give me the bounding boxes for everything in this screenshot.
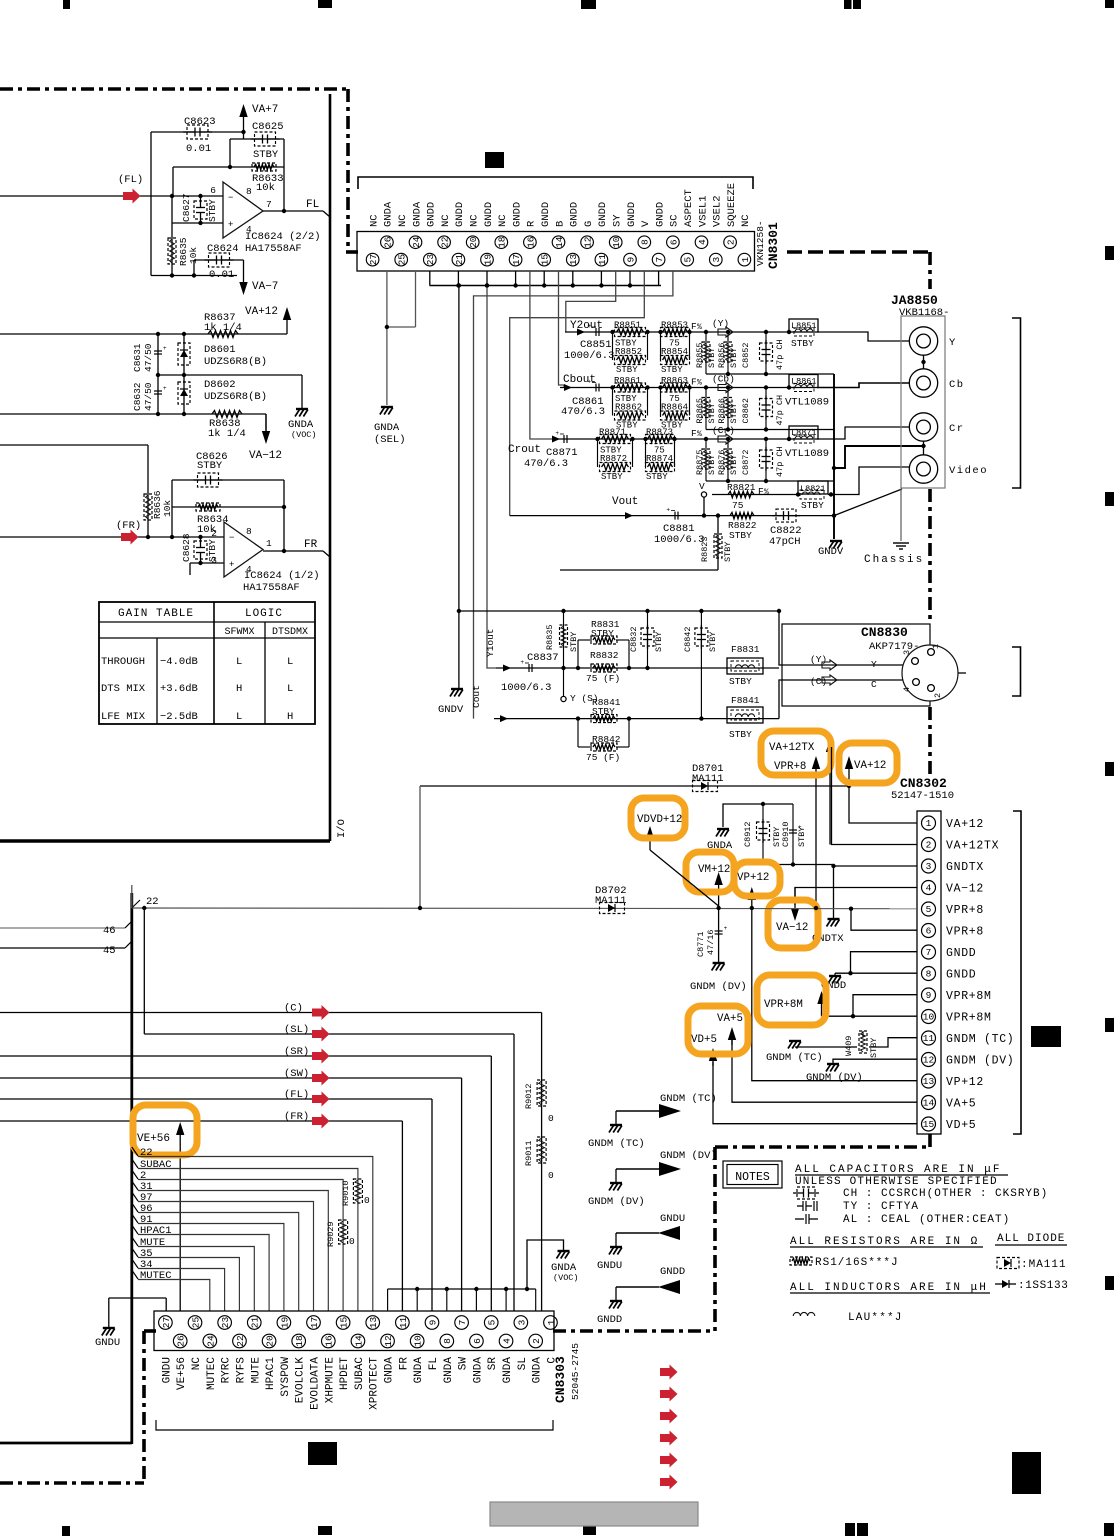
wire C8623 row xyxy=(151,131,244,133)
svg-text:GNDD: GNDD xyxy=(946,969,976,982)
highlight VA-12 xyxy=(768,900,818,948)
svg-text:GNDA: GNDA xyxy=(443,1357,455,1384)
svg-text:%: % xyxy=(697,323,702,332)
wire GNDU branch xyxy=(109,1297,166,1299)
svg-text:(VOC): (VOC) xyxy=(291,430,317,440)
wire (C) drop xyxy=(541,1013,543,1312)
ground GNDV video xyxy=(830,540,842,542)
red arrow (SL) xyxy=(312,1027,330,1042)
svg-text:R8851: R8851 xyxy=(614,321,641,331)
svg-text:C8625: C8625 xyxy=(252,121,284,133)
node bottom junction 2 xyxy=(192,273,196,277)
wire y375 to GNDA VOC xyxy=(158,374,302,376)
node y334 j1 xyxy=(156,332,160,336)
section marker black square top middle xyxy=(485,152,504,168)
notes box xyxy=(723,1161,782,1188)
ferrite F8831 xyxy=(727,658,763,674)
svg-text:STBY: STBY xyxy=(707,403,717,423)
node y334 j2 xyxy=(182,332,186,336)
inductor L8851 xyxy=(789,319,818,332)
wire Cr row to jack xyxy=(817,427,909,439)
svg-text:HPAC1: HPAC1 xyxy=(140,1225,172,1237)
svg-text:R8853: R8853 xyxy=(661,321,688,331)
svg-text:NC: NC xyxy=(397,214,409,227)
ground GNDM (TC) xyxy=(615,1111,617,1124)
svg-text:Cbout: Cbout xyxy=(563,374,596,386)
CN8303 pin 5 xyxy=(484,1316,498,1330)
svg-text:Y: Y xyxy=(871,659,877,670)
svg-text:(SR): (SR) xyxy=(284,1046,309,1058)
ground GNDA (SEL) xyxy=(381,406,393,408)
wire SL source vertical xyxy=(143,908,145,1034)
svg-text:0.01: 0.01 xyxy=(209,269,234,281)
wire to VA-12 xyxy=(265,414,267,431)
svg-text:STBY: STBY xyxy=(708,632,718,652)
svg-text:V: V xyxy=(640,220,652,227)
svg-text:47pCH: 47pCH xyxy=(769,536,801,548)
ground GNDM(TC) mid xyxy=(789,1040,801,1042)
svg-text:(Y): (Y) xyxy=(810,654,827,665)
svg-text:GNDD: GNDD xyxy=(454,202,466,227)
ground GNDM (DV) xyxy=(615,1169,617,1182)
bus tap 35 xyxy=(132,1248,138,1257)
svg-text:47p CH: 47p CH xyxy=(775,339,785,370)
svg-text:GNDM (DV): GNDM (DV) xyxy=(588,1196,645,1208)
svg-text:GNDM (DV): GNDM (DV) xyxy=(660,1150,717,1162)
svg-text:24: 24 xyxy=(205,1335,216,1347)
highlight VA+12TX VPR+8 xyxy=(761,731,831,775)
CN8302 pin 15 xyxy=(922,1117,936,1131)
capacitor C8852 xyxy=(765,332,767,374)
node 22 j752 xyxy=(750,906,754,910)
CN8302 pin 7 xyxy=(922,945,936,959)
svg-text:%: % xyxy=(697,430,702,439)
svg-text:STBY: STBY xyxy=(791,338,814,349)
bracket right of JA8850 xyxy=(1012,318,1021,488)
svg-text:CN8302: CN8302 xyxy=(900,776,947,791)
svg-text:VE+56: VE+56 xyxy=(176,1357,188,1390)
ferrite F8841 xyxy=(727,707,763,723)
svg-text:STBY: STBY xyxy=(707,348,717,368)
notes resistor symbol xyxy=(790,1257,812,1265)
crop mark bottom left xyxy=(62,1526,70,1536)
svg-text:I/O: I/O xyxy=(336,819,348,838)
svg-text:−4.0dB: −4.0dB xyxy=(160,656,198,668)
wire GNDA pin24 xyxy=(415,271,417,327)
dashed border horizontal y1331 right part xyxy=(553,1329,715,1333)
signal arrow Cout xyxy=(500,715,508,722)
capacitor C8822 xyxy=(776,509,796,522)
node GNDD bus junction pin 21 xyxy=(456,283,460,287)
svg-text:+3.6dB: +3.6dB xyxy=(160,683,198,695)
svg-text:GNDD: GNDD xyxy=(946,947,976,960)
svg-text:GNDA: GNDA xyxy=(413,1357,425,1384)
double arrow Y svideo xyxy=(822,660,837,670)
wire CN8302 pin12 xyxy=(833,1059,917,1063)
svg-text:1: 1 xyxy=(740,256,751,262)
resistor R8832 xyxy=(591,664,617,672)
op-amp IC8624 (1/2) xyxy=(224,522,263,577)
svg-text:F8841: F8841 xyxy=(731,695,760,706)
CN8301 pin 1 xyxy=(738,253,751,266)
svg-text:C8852: C8852 xyxy=(741,342,751,368)
svg-text:GNDD: GNDD xyxy=(626,202,638,227)
ground GNDM(DV) mid xyxy=(713,962,725,964)
CN8303 pin 24 xyxy=(203,1334,217,1348)
ground GNDA mid xyxy=(717,828,729,830)
wire HPAC1 to CN8303 xyxy=(138,1235,269,1312)
svg-text:Y2out: Y2out xyxy=(570,320,603,332)
RCA jack Cr xyxy=(909,413,937,441)
node y375 j2 xyxy=(182,373,186,377)
svg-text:19: 19 xyxy=(482,254,493,266)
svg-text:(SL): (SL) xyxy=(284,1024,309,1036)
CN8303 pin 20 xyxy=(262,1334,276,1348)
wire GNDD stub xyxy=(616,1286,659,1288)
svg-text:HPDET: HPDET xyxy=(339,1357,351,1390)
svg-text:14: 14 xyxy=(923,1098,935,1109)
wire vertical x284 feedback to output xyxy=(283,139,285,211)
resistor R8873 xyxy=(646,435,675,444)
ground GNDD xyxy=(615,1287,617,1300)
svg-text:C8842: C8842 xyxy=(683,626,693,652)
CN8301 pin 2 xyxy=(724,236,737,249)
svg-text:12: 12 xyxy=(923,1055,935,1066)
power arrow VA-12 xyxy=(265,414,267,436)
svg-text:R9011: R9011 xyxy=(524,1140,534,1166)
svg-text:GNDA: GNDA xyxy=(532,1357,544,1384)
svg-text:ALL INDUCTORS ARE IN μH: ALL INDUCTORS ARE IN μH xyxy=(790,1282,988,1294)
wire 46 entry xyxy=(0,927,125,929)
crop mark right edge 1 xyxy=(1105,246,1114,260)
bottom rail row 1 xyxy=(706,373,834,375)
wire Vout signal xyxy=(510,515,834,517)
svg-text:GNDV: GNDV xyxy=(818,546,844,558)
notes diode 1SS133 xyxy=(995,1283,1002,1285)
diode D8701 xyxy=(693,781,718,792)
svg-text:C8910: C8910 xyxy=(781,821,791,847)
node GNDD bus junction pin 9 xyxy=(628,283,632,287)
svg-text:NC: NC xyxy=(191,1357,203,1371)
svg-text:VTL1089: VTL1089 xyxy=(785,448,829,460)
svg-text:R8832: R8832 xyxy=(590,650,619,661)
CN8302 pin 13 xyxy=(922,1074,936,1088)
node y414 j1 xyxy=(156,412,160,416)
svg-text:1000/6.3: 1000/6.3 xyxy=(564,350,614,362)
svg-text:19: 19 xyxy=(279,1317,290,1329)
svg-text:27: 27 xyxy=(368,254,379,265)
capacitor C8842 xyxy=(700,611,702,719)
svg-text:VDVD+12: VDVD+12 xyxy=(637,814,682,826)
I/O block bottom thick line xyxy=(0,839,330,842)
zener diode D8601 xyxy=(183,334,185,414)
svg-text:13: 13 xyxy=(568,254,579,266)
svg-text:DTS MIX: DTS MIX xyxy=(101,683,146,695)
svg-text:47/50: 47/50 xyxy=(143,343,154,372)
svg-text:22: 22 xyxy=(146,896,159,908)
svg-text:15: 15 xyxy=(540,254,551,266)
svg-text:R8856: R8856 xyxy=(717,342,727,368)
svg-text:XHPMUTE: XHPMUTE xyxy=(324,1357,336,1404)
power arrow VM+12 xyxy=(718,880,720,908)
dashed border horizontal y1331 left stub xyxy=(144,1329,156,1333)
svg-text:VA+12: VA+12 xyxy=(946,818,984,831)
crop mark bottom 2 xyxy=(583,1524,596,1535)
CN8303 pin 11 xyxy=(396,1316,410,1330)
node L8821 left xyxy=(796,492,800,496)
svg-text:+: + xyxy=(163,345,167,352)
svg-text:GNDA: GNDA xyxy=(374,422,400,434)
svg-text:10: 10 xyxy=(413,1335,424,1347)
highlight VM+12 xyxy=(686,852,734,892)
wire link Y-Cb xyxy=(923,355,925,369)
svg-text:GNDM (TC): GNDM (TC) xyxy=(660,1093,717,1105)
node FR out j xyxy=(282,549,286,553)
svg-text:Vout: Vout xyxy=(612,496,638,508)
resistor R8822 xyxy=(730,512,754,518)
svg-text:SR: SR xyxy=(487,1357,499,1371)
dashed border elbow to CN8301 xyxy=(346,250,358,254)
bottom rail row 2 xyxy=(706,429,834,431)
svg-text:R8823: R8823 xyxy=(700,536,710,562)
wire Crout signal xyxy=(552,438,789,440)
svg-text:GNDTX: GNDTX xyxy=(946,861,984,874)
CN8301 pin 5 xyxy=(681,253,694,266)
node GNDA junction xyxy=(385,325,389,329)
bracket right of CN8302 xyxy=(1013,811,1021,1134)
wire (FR) drop xyxy=(401,1121,403,1311)
svg-text:3: 3 xyxy=(711,256,722,262)
svg-text:HA17558AF: HA17558AF xyxy=(245,243,302,255)
highlight VA+12 xyxy=(839,743,897,783)
svg-text:+: + xyxy=(229,560,234,570)
svg-text:VPR+8M: VPR+8M xyxy=(764,999,803,1011)
svg-text:3: 3 xyxy=(516,1319,527,1325)
svg-text:Cout: Cout xyxy=(471,685,482,708)
svg-text:VA+5: VA+5 xyxy=(946,1098,976,1111)
svg-text:2: 2 xyxy=(726,239,737,245)
bus tap 34 xyxy=(132,1259,138,1268)
svg-text:R8835: R8835 xyxy=(545,624,555,650)
wire MUTE to CN8303 xyxy=(138,1247,254,1312)
svg-text:C8627: C8627 xyxy=(181,193,192,222)
signal arrow Vout xyxy=(625,512,633,519)
svg-text:2: 2 xyxy=(926,840,932,851)
dashed border vertical x144 xyxy=(142,1331,146,1483)
wire R pin16 to Crout xyxy=(530,271,552,439)
svg-text:W409: W409 xyxy=(844,1036,854,1056)
node GNDD bus junction pin 15 xyxy=(542,283,546,287)
wire vertical x172 minus to bottom xyxy=(171,196,173,276)
svg-text:CH : CCSRCH(OTHER : CKSRYB): CH : CCSRCH(OTHER : CKSRYB) xyxy=(843,1188,1048,1200)
wire (SW) drop xyxy=(461,1078,463,1311)
node GNDD bus junction pin 11 xyxy=(599,283,603,287)
svg-text:SFWMX: SFWMX xyxy=(224,627,254,638)
node inductor 2 xyxy=(787,385,791,389)
resistor R8862 lower xyxy=(612,388,614,416)
CN8303 pin 13 xyxy=(366,1316,380,1330)
svg-text:1: 1 xyxy=(931,644,941,649)
wire GNDA pin stub x387 xyxy=(387,1289,389,1311)
CN8303 pin 27 xyxy=(159,1316,173,1330)
svg-text:C8862: C8862 xyxy=(741,398,751,424)
wire 22 to CN8303 xyxy=(138,1157,373,1312)
svg-text:VA+12: VA+12 xyxy=(245,306,278,318)
svg-text:21: 21 xyxy=(454,254,465,266)
svg-text:VPR+8: VPR+8 xyxy=(946,904,984,917)
crop mark top 4a xyxy=(844,0,852,9)
svg-text:46: 46 xyxy=(103,925,116,937)
CN8303 pin 14 xyxy=(351,1334,365,1348)
svg-text:IC8624 (2/2): IC8624 (2/2) xyxy=(245,231,321,243)
resistor R8634 xyxy=(196,503,220,511)
wire GNDM (DV) stub xyxy=(616,1168,659,1170)
svg-text:8: 8 xyxy=(926,969,932,980)
svg-text:VP+12: VP+12 xyxy=(737,872,769,884)
dashed border vertical x348 xyxy=(346,89,350,252)
svg-text:MA111: MA111 xyxy=(595,895,627,907)
wire L8821 to Video jack xyxy=(828,467,909,495)
CN8303 pin 19 xyxy=(277,1316,291,1330)
wire link Cr-Video xyxy=(923,441,925,455)
svg-text:Cb: Cb xyxy=(949,379,965,391)
svg-text:+: + xyxy=(724,925,728,932)
svg-text:+: + xyxy=(228,220,233,230)
svg-text:22: 22 xyxy=(140,1147,153,1159)
signal arrow Crout xyxy=(552,436,560,443)
capacitor C8862 xyxy=(765,388,767,430)
RCA jack Cb xyxy=(909,369,937,397)
svg-text:NC: NC xyxy=(497,214,509,227)
svg-text:11: 11 xyxy=(398,1317,409,1329)
inductor L8871 xyxy=(789,426,818,439)
svg-text:VD+5: VD+5 xyxy=(691,1034,717,1046)
svg-text:STBY: STBY xyxy=(592,706,615,717)
connector CN8830 body xyxy=(782,624,930,706)
bus tap 96 xyxy=(132,1203,138,1212)
svg-text:26: 26 xyxy=(382,236,393,248)
wire R8823 bottom xyxy=(560,569,718,571)
CN8301 pin 13 xyxy=(567,253,580,266)
svg-text:HA17558AF: HA17558AF xyxy=(243,582,300,594)
svg-text:GNDA: GNDA xyxy=(472,1357,484,1384)
svg-text:ALL RESISTORS ARE IN Ω: ALL RESISTORS ARE IN Ω xyxy=(790,1236,979,1248)
crop mark bottom 3b xyxy=(857,1523,868,1536)
svg-text:23: 23 xyxy=(220,1317,231,1329)
resistor R8871 xyxy=(600,435,631,444)
wire CN8302 pin13 xyxy=(752,908,917,1081)
resistor R8842 xyxy=(577,719,579,747)
svg-text:VA−12: VA−12 xyxy=(946,883,984,896)
capacitor C8627 xyxy=(194,201,207,219)
wire (FL) drop xyxy=(431,1099,433,1311)
wire D8701 row y786 xyxy=(420,785,849,787)
svg-text:R8854: R8854 xyxy=(661,347,688,357)
svg-text:470/6.3: 470/6.3 xyxy=(561,406,605,418)
svg-text:10: 10 xyxy=(611,236,622,248)
svg-text:47/16: 47/16 xyxy=(706,929,716,955)
crop mark bottom 1b xyxy=(318,1526,332,1535)
svg-text:UDZS6R8(B): UDZS6R8(B) xyxy=(204,391,267,403)
wire GNDA pin stub x476 xyxy=(475,1289,477,1311)
rail GNDD y611 xyxy=(459,610,779,612)
svg-text:0.01: 0.01 xyxy=(186,143,211,155)
node FL- junction 2 xyxy=(198,194,202,198)
wire CN8302 pin7 xyxy=(851,952,918,974)
wire rail to Cr-Video link xyxy=(834,446,923,468)
crop mark right edge 3 xyxy=(1105,762,1114,776)
wire y414 xyxy=(0,413,266,415)
svg-text:4: 4 xyxy=(926,883,932,894)
CN8301 pin 3 xyxy=(710,253,723,266)
resistor R8633 xyxy=(252,163,276,171)
svg-text:25: 25 xyxy=(397,254,408,266)
svg-text:D8601: D8601 xyxy=(204,344,236,356)
bus tap MUTE xyxy=(132,1237,138,1246)
red arrow (SW) xyxy=(312,1071,330,1086)
ground GNDU xyxy=(615,1233,617,1246)
svg-text:(FL): (FL) xyxy=(118,174,143,186)
svg-text:DTSDMX: DTSDMX xyxy=(272,627,308,638)
resistor R8874 lower xyxy=(645,439,647,467)
wire V pin8 to Vout xyxy=(510,271,645,516)
node D8701 out xyxy=(847,784,851,788)
wire 91 to CN8303 xyxy=(138,1224,284,1312)
svg-text:Y1out: Y1out xyxy=(485,628,496,657)
svg-text:R8863: R8863 xyxy=(661,376,688,386)
wire vertical x284 FR xyxy=(283,480,285,551)
svg-text:VA−7: VA−7 xyxy=(252,281,278,293)
feedback rail R8633 xyxy=(173,166,284,168)
wire SY pin10 to Y2out xyxy=(566,271,616,332)
svg-text:UDZS6R8(B): UDZS6R8(B) xyxy=(204,356,267,368)
dashed border vertical x930 jack to CN8830 xyxy=(928,489,932,624)
CN8301 pin 18 xyxy=(495,236,508,249)
double arrow Cb xyxy=(718,383,733,393)
svg-text:VSEL2: VSEL2 xyxy=(712,195,724,227)
wire (SL) row xyxy=(144,1033,514,1035)
svg-text:2: 2 xyxy=(933,693,943,698)
CN8302 pin 3 xyxy=(922,859,936,873)
svg-text:C: C xyxy=(871,679,877,690)
svg-text:Video: Video xyxy=(949,465,988,477)
svg-text:UNLESS OTHERWISE SPECIFIED: UNLESS OTHERWISE SPECIFIED xyxy=(795,1176,998,1188)
CN8301 pin 25 xyxy=(395,253,408,266)
node 22 j420 xyxy=(418,906,422,910)
svg-text:−: − xyxy=(228,193,233,203)
svg-text:6: 6 xyxy=(210,185,216,196)
resistor R8821 xyxy=(712,494,798,496)
power arrow VA-7 xyxy=(243,260,245,287)
svg-text:12: 12 xyxy=(383,1335,394,1347)
svg-text:VE+56: VE+56 xyxy=(137,1133,170,1145)
power arrow VA+12 upper xyxy=(286,315,288,334)
svg-text:G: G xyxy=(583,221,595,227)
connector JA8850 body xyxy=(901,316,945,488)
svg-text:−2.5dB: −2.5dB xyxy=(160,711,198,723)
wire CN8302 pin1 xyxy=(849,786,917,823)
svg-text:STBY: STBY xyxy=(797,827,807,847)
testpoint Y(S) xyxy=(563,668,565,696)
wire CN8302 pin15 xyxy=(713,1062,917,1124)
svg-text:14: 14 xyxy=(353,1335,364,1347)
power arrow VE+56 xyxy=(179,1130,181,1311)
resistor R8864 lower xyxy=(660,388,662,416)
svg-text:LFE MIX: LFE MIX xyxy=(101,711,146,723)
svg-text:52045-2745: 52045-2745 xyxy=(570,1343,581,1400)
svg-text:(FR): (FR) xyxy=(284,1111,309,1123)
resistor R9012 on C line xyxy=(537,1080,546,1106)
